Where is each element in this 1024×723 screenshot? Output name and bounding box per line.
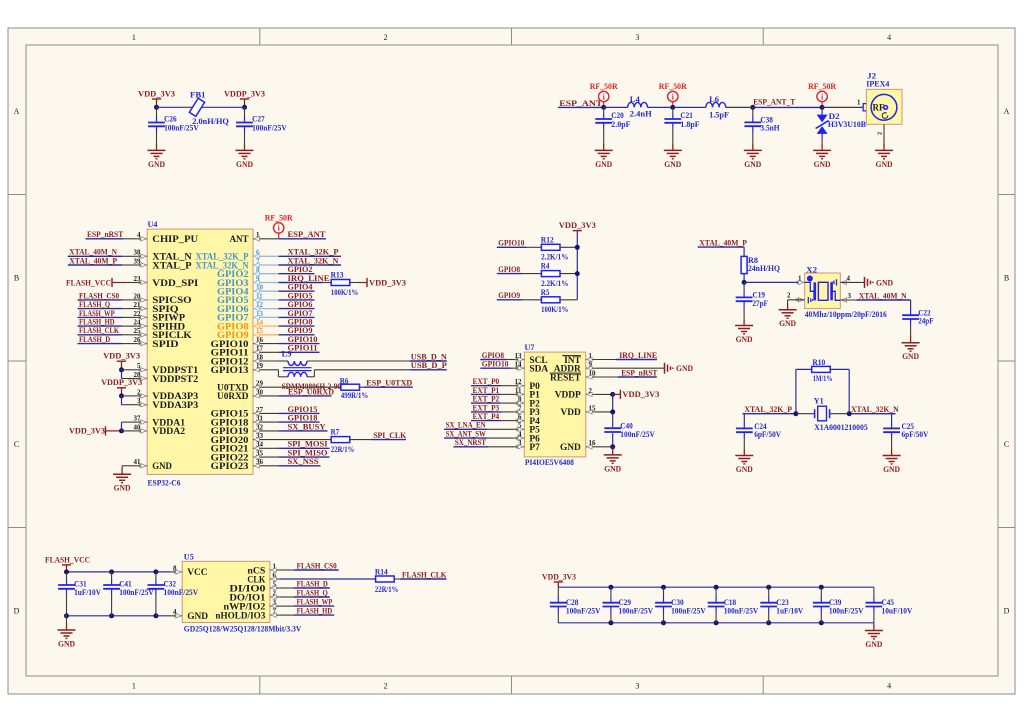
svg-text:EXT_P2: EXT_P2 [473,395,500,404]
svg-text:VDDP: VDDP [555,391,581,401]
svg-text:X2: X2 [806,265,817,274]
svg-text:24nH/HQ: 24nH/HQ [748,264,781,273]
svg-text:22: 22 [134,310,142,318]
svg-text:D: D [1004,607,1010,616]
svg-text:2.2K/1%: 2.2K/1% [541,279,568,288]
svg-text:FLASH_CLK: FLASH_CLK [402,570,447,579]
svg-text:41: 41 [134,458,142,466]
svg-text:3: 3 [635,33,639,42]
svg-text:GPIO10: GPIO10 [498,239,524,248]
svg-text:GND: GND [876,160,893,169]
svg-text:GPIO9: GPIO9 [498,291,520,300]
svg-text:GPIO4: GPIO4 [288,283,313,292]
svg-text:GND: GND [814,160,831,169]
svg-text:B: B [14,274,19,283]
svg-text:XTAL_32K_P: XTAL_32K_P [744,405,792,414]
svg-text:R10: R10 [812,358,825,367]
svg-text:PI4IOE5V6408: PI4IOE5V6408 [525,458,574,467]
svg-text:ESP_ANT: ESP_ANT [559,99,603,108]
svg-text:SPI_MOSI: SPI_MOSI [288,440,328,449]
svg-text:VDD_3V3: VDD_3V3 [369,278,406,287]
svg-text:ESP_nRST: ESP_nRST [621,368,658,377]
svg-text:VDD_3V3: VDD_3V3 [622,390,659,399]
svg-text:L6: L6 [709,95,719,104]
svg-text:GND: GND [676,364,693,373]
svg-text:FLASH_WP: FLASH_WP [79,309,115,318]
svg-text:GPIO15: GPIO15 [288,405,318,414]
svg-text:USB_D_N: USB_D_N [411,352,447,361]
svg-text:EXT_P0: EXT_P0 [473,377,500,386]
svg-text:SDA: SDA [529,365,548,375]
svg-text:CHIP_PU: CHIP_PU [152,235,198,245]
svg-text:GPIO8: GPIO8 [498,265,520,274]
svg-text:VDD: VDD [560,408,581,418]
svg-text:22R/1%: 22R/1% [331,445,354,454]
svg-text:GD25Q128/W25Q128/128Mbit/3.3V: GD25Q128/W25Q128/128Mbit/3.3V [184,625,302,634]
svg-text:4: 4 [887,33,891,42]
svg-text:VDD_SPI: VDD_SPI [152,279,198,289]
svg-text:FLASH_Q: FLASH_Q [297,588,329,597]
svg-text:3.5nH: 3.5nH [760,123,780,132]
svg-text:ESP_ANT: ESP_ANT [288,230,327,239]
svg-text:VCC: VCC [187,568,208,578]
svg-text:RF_50R: RF_50R [808,82,836,91]
svg-text:L4: L4 [630,95,640,104]
svg-text:24pF: 24pF [918,317,933,326]
svg-text:GPIO10: GPIO10 [482,360,509,369]
svg-text:EXT_P3: EXT_P3 [473,403,500,412]
svg-text:1.8pF: 1.8pF [680,120,699,129]
svg-text:C: C [1004,440,1009,449]
svg-text:USB_D_P: USB_D_P [411,361,447,370]
svg-text:H3V3U10B: H3V3U10B [828,120,867,129]
svg-text:FLASH_VCC: FLASH_VCC [66,278,111,287]
svg-text:100nF/25V: 100nF/25V [724,607,759,616]
svg-text:FLASH_WP: FLASH_WP [297,598,333,607]
svg-text:GND: GND [152,462,172,472]
svg-text:2.2K/1%: 2.2K/1% [541,253,568,262]
svg-text:4: 4 [887,682,891,691]
svg-text:R5: R5 [541,288,550,297]
svg-text:SPID: SPID [152,340,178,350]
svg-text:VDD_3V3: VDD_3V3 [103,352,140,361]
svg-text:4: 4 [847,275,851,283]
svg-text:ESP_ANT_T: ESP_ANT_T [753,98,795,107]
svg-text:2: 2 [787,292,791,300]
svg-text:GND: GND [779,319,796,328]
svg-text:R7: R7 [331,428,340,437]
svg-text:100nF/25V: 100nF/25V [164,124,199,133]
svg-text:ESP32-C6: ESP32-C6 [148,478,181,487]
svg-text:VDD_3V3: VDD_3V3 [138,89,175,98]
svg-text:10uF/10V: 10uF/10V [882,607,913,616]
svg-text:XTAL_32K_N: XTAL_32K_N [851,405,899,414]
svg-text:1M/1%: 1M/1% [813,374,833,383]
svg-text:VDDPST2: VDDPST2 [152,375,198,385]
svg-text:GPIO6: GPIO6 [288,300,313,309]
svg-text:IPEX4: IPEX4 [866,80,889,89]
svg-text:IRQ_LINE: IRQ_LINE [619,351,658,360]
svg-text:1: 1 [132,682,136,691]
svg-text:VDD_3V3: VDD_3V3 [69,427,105,436]
svg-text:XTAL_40M_P: XTAL_40M_P [699,239,747,248]
svg-text:GND: GND [744,160,761,169]
svg-text:C21: C21 [680,111,693,120]
svg-text:C20: C20 [611,111,624,120]
svg-text:40: 40 [134,423,142,431]
svg-text:nHOLD/IO3: nHOLD/IO3 [215,611,265,621]
svg-text:SX_ANT_SW: SX_ANT_SW [446,430,487,439]
svg-text:GND: GND [664,160,681,169]
svg-text:6pF/50V: 6pF/50V [754,430,781,439]
svg-text:R6: R6 [340,377,349,386]
svg-text:XTAL_P: XTAL_P [152,261,192,271]
svg-text:499R/1%: 499R/1% [341,391,368,400]
svg-text:GPIO2: GPIO2 [288,265,313,274]
svg-text:IRQ_LINE: IRQ_LINE [288,274,331,283]
svg-text:GPIO10: GPIO10 [288,335,318,344]
svg-text:GND: GND [114,484,131,493]
svg-text:2.4nH: 2.4nH [630,110,653,119]
svg-text:RF_50R: RF_50R [265,214,293,223]
svg-text:SX_NSS: SX_NSS [288,457,319,466]
svg-text:VDDA2: VDDA2 [152,427,185,437]
svg-text:EXT_P4: EXT_P4 [473,412,500,421]
svg-text:SPI_CLK: SPI_CLK [373,431,407,440]
svg-text:D: D [14,607,20,616]
svg-text:ESP_U0RXD: ESP_U0RXD [288,387,334,396]
svg-text:FLASH_HD: FLASH_HD [79,318,115,327]
svg-text:FLASH_CS0: FLASH_CS0 [297,561,337,570]
svg-text:100nF/25V: 100nF/25V [566,607,601,616]
svg-text:R4: R4 [541,262,550,271]
svg-text:3: 3 [848,292,852,300]
svg-text:EXT_P1: EXT_P1 [473,386,500,395]
svg-text:21: 21 [134,301,142,309]
svg-text:39: 39 [134,257,142,265]
svg-text:X1A0001210005: X1A0001210005 [814,423,868,432]
svg-text:1uF/10V: 1uF/10V [74,588,101,597]
svg-text:FLASH_HD: FLASH_HD [297,607,333,616]
svg-text:GPIO18: GPIO18 [288,414,318,423]
svg-text:GPIO5: GPIO5 [288,291,313,300]
svg-text:GND: GND [58,639,75,648]
svg-text:VDDP_3V3: VDDP_3V3 [224,89,265,98]
svg-text:100nF/25V: 100nF/25V [829,607,864,616]
svg-text:ANT: ANT [230,235,250,245]
svg-text:23: 23 [134,275,142,283]
svg-text:GPIO23: GPIO23 [211,462,249,472]
svg-text:RF_50R: RF_50R [590,82,618,91]
svg-text:GND: GND [604,464,621,473]
svg-text:100nF/25V: 100nF/25V [671,607,706,616]
svg-text:24: 24 [134,319,142,327]
svg-text:A: A [14,107,20,116]
svg-text:2: 2 [384,682,388,691]
svg-text:GND: GND [883,465,900,474]
svg-text:FLASH_Q: FLASH_Q [79,300,111,309]
svg-text:R14: R14 [375,568,388,577]
svg-text:GPIO9: GPIO9 [288,326,313,335]
svg-text:XTAL_40M_P: XTAL_40M_P [69,256,117,265]
svg-text:GND: GND [736,335,753,344]
svg-text:FLASH_CLK: FLASH_CLK [79,326,120,335]
svg-text:FLASH_VCC: FLASH_VCC [45,556,90,565]
svg-text:SX_BUSY: SX_BUSY [288,422,326,431]
svg-text:U5: U5 [184,552,194,561]
svg-text:3: 3 [635,682,639,691]
svg-text:6pF/50V: 6pF/50V [902,430,929,439]
svg-text:R12: R12 [541,235,554,244]
svg-text:B: B [1004,274,1009,283]
svg-text:C40: C40 [620,421,633,430]
svg-text:XTAL_32K_P: XTAL_32K_P [288,248,339,257]
svg-text:GPIO13: GPIO13 [211,366,249,376]
svg-text:100nF/25V: 100nF/25V [619,607,654,616]
svg-text:P7: P7 [529,443,540,453]
svg-text:SX_NRST: SX_NRST [455,438,487,447]
svg-text:FLASH_D: FLASH_D [79,335,110,344]
svg-text:C27: C27 [252,115,265,124]
svg-text:22R/1%: 22R/1% [375,585,398,594]
svg-text:VDDA3P3: VDDA3P3 [152,401,198,411]
svg-text:SX_LNA_EN: SX_LNA_EN [446,421,486,430]
svg-text:27pF: 27pF [753,299,768,308]
svg-text:SPI_MISO: SPI_MISO [288,448,328,457]
svg-text:FLASH_CS0: FLASH_CS0 [79,291,119,300]
svg-text:GND: GND [148,160,165,169]
svg-text:40Mhz/10ppm/20pF/2016: 40Mhz/10ppm/20pF/2016 [805,310,887,319]
svg-text:VDD_3V3: VDD_3V3 [559,221,596,230]
svg-text:XTAL_32K_N: XTAL_32K_N [288,256,339,265]
svg-text:1uF/10V: 1uF/10V [776,607,803,616]
svg-text:C26: C26 [164,115,177,124]
svg-text:GND: GND [236,160,253,169]
svg-text:FLASH_D: FLASH_D [297,579,328,588]
svg-text:GPIO8: GPIO8 [482,351,504,360]
svg-text:100nF/25V: 100nF/25V [252,124,287,133]
svg-text:20: 20 [134,292,142,300]
svg-text:RF_50R: RF_50R [659,82,687,91]
svg-text:U4: U4 [148,220,158,229]
svg-text:VDDP_3V3: VDDP_3V3 [101,378,142,387]
svg-text:GND: GND [595,160,612,169]
svg-text:VDD_3V3: VDD_3V3 [542,572,576,581]
svg-text:GPIO7: GPIO7 [288,309,313,318]
svg-text:26: 26 [134,336,142,344]
svg-text:2.0pF: 2.0pF [611,120,630,129]
svg-text:GND: GND [902,352,919,361]
svg-text:100K/1%: 100K/1% [331,288,358,297]
svg-text:C: C [14,440,19,449]
svg-text:GND: GND [187,612,208,622]
svg-text:ESP_U0TXD: ESP_U0TXD [366,379,412,388]
svg-text:GND: GND [560,443,581,453]
svg-text:1.5pF: 1.5pF [709,111,729,120]
svg-text:Y1: Y1 [814,397,824,406]
svg-text:GND: GND [876,278,893,287]
svg-text:GPIO8: GPIO8 [288,318,313,327]
svg-text:100nF/25V: 100nF/25V [620,430,655,439]
svg-text:ESP_nRST: ESP_nRST [87,230,124,239]
svg-text:2: 2 [877,132,884,135]
svg-text:38: 38 [134,249,142,257]
svg-text:XTAL_40M_N: XTAL_40M_N [69,248,117,257]
svg-text:L9: L9 [282,350,292,359]
svg-text:2: 2 [384,33,388,42]
svg-text:GND: GND [736,465,753,474]
svg-text:U0RXD: U0RXD [217,392,249,402]
svg-text:37: 37 [134,415,142,423]
svg-text:100K/1%: 100K/1% [541,305,568,314]
svg-text:R13: R13 [331,271,344,280]
svg-text:RESET: RESET [550,373,581,383]
svg-text:A: A [1004,107,1010,116]
svg-text:25: 25 [134,327,142,335]
svg-text:U7: U7 [525,343,535,352]
svg-text:100nF/25V: 100nF/25V [164,588,199,597]
svg-text:1: 1 [132,33,136,42]
svg-text:GPIO11: GPIO11 [288,344,318,353]
svg-text:1: 1 [857,99,861,107]
svg-text:FB1: FB1 [190,91,206,100]
svg-text:GND: GND [865,640,882,649]
svg-text:XTAL_40M_N: XTAL_40M_N [859,291,907,300]
